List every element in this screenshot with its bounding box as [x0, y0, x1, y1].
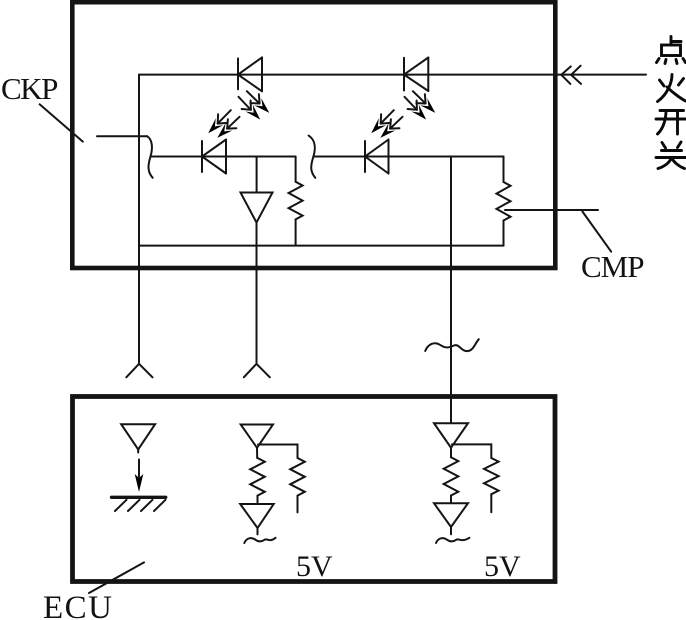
CMP leader line	[582, 212, 611, 252]
glyph 关	[656, 142, 686, 169]
ECU leader line	[89, 562, 144, 593]
svg-text:CKP: CKP	[1, 71, 57, 106]
connector chevron CKP lead	[126, 364, 152, 378]
light arrows into D4	[381, 110, 394, 123]
LED D1 on top rail	[237, 58, 239, 89]
photodiode D4	[364, 141, 366, 172]
wire: U1 output down to connector	[256, 223, 258, 363]
arrow to ground	[138, 460, 140, 478]
ECU buffer U5	[434, 423, 468, 448]
wire: inner-left vertical x=139 down to connector	[138, 75, 140, 363]
buffer U1 (sensor amp triangle)	[241, 193, 273, 223]
ignition feed arrowheads <<	[561, 66, 571, 84]
light arrows from D2	[413, 91, 425, 103]
light arrows into D3	[218, 110, 231, 123]
wire: photodiode D3 row	[151, 156, 296, 158]
ECU buffer U4	[240, 504, 274, 528]
ECU buffer U2	[121, 424, 155, 449]
svg-text:5V: 5V	[296, 550, 333, 583]
break tilde under U6	[436, 538, 469, 543]
wire: inner bottom rail y=245.6	[139, 245, 504, 247]
glyph 开	[656, 111, 686, 135]
wire: CMP signal vertical x=451	[450, 157, 452, 424]
ground hatching	[115, 500, 127, 511]
svg-text:5V: 5V	[484, 550, 521, 583]
ECU buffer U6	[434, 503, 468, 527]
ground bar	[112, 496, 166, 499]
light arrows from D1	[247, 91, 259, 103]
connector chevron U1 lead	[244, 364, 270, 378]
svg-text:CMP: CMP	[581, 249, 643, 284]
wire: drop to buffer U1	[256, 157, 258, 193]
pull-up resistor R6	[484, 458, 499, 494]
ECU box (thick rectangle)	[73, 397, 556, 582]
glyph 点	[657, 37, 686, 64]
sensor box (outer thick rectangle)	[72, 2, 555, 268]
resistor R2	[503, 157, 505, 183]
label 点火开关 (ignition switch), hand-drawn glyphs	[656, 37, 686, 169]
wire: top supply rail y=74.6	[139, 74, 646, 76]
wire: tap to pull-up R4	[258, 445, 298, 459]
glyph 火	[658, 75, 686, 102]
LED D2 on top rail	[403, 58, 405, 91]
CKP leader line	[40, 104, 83, 141]
photodiode D3	[201, 141, 203, 172]
resistor R1	[295, 157, 297, 182]
resistor R5	[444, 457, 459, 495]
wire: photodiode D4 row	[313, 156, 503, 158]
cable-break squiggle S2	[309, 136, 316, 178]
cable-break squiggle S1	[147, 136, 153, 178]
resistor R3	[250, 458, 265, 496]
svg-text:ECU: ECU	[43, 590, 114, 620]
ECU buffer U3	[241, 425, 273, 448]
cable-break tilde on CMP wire	[425, 339, 479, 351]
wire: CKP lead	[97, 135, 147, 137]
wire: CMP tap	[505, 209, 598, 211]
wire: tap to pull-up R6	[452, 444, 491, 458]
pull-up resistor R4	[290, 458, 305, 496]
break tilde under U4	[244, 538, 275, 543]
